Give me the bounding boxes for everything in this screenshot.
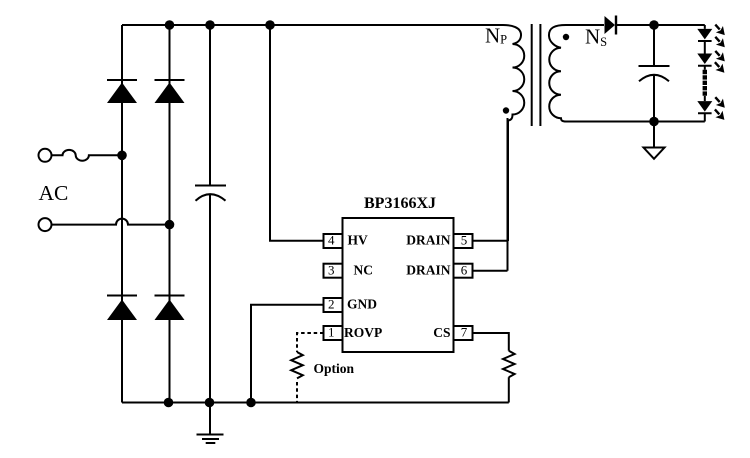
svg-text:AC: AC (39, 181, 69, 205)
svg-text:6: 6 (461, 263, 468, 278)
svg-text:ROVP: ROVP (344, 325, 382, 340)
svg-text:HV: HV (348, 233, 369, 248)
svg-text:NC: NC (354, 263, 374, 278)
svg-text:DRAIN: DRAIN (406, 263, 451, 278)
svg-text:7: 7 (461, 325, 468, 340)
svg-text:Option: Option (314, 361, 355, 376)
svg-text:CS: CS (433, 325, 450, 340)
svg-text:5: 5 (461, 233, 468, 248)
svg-text:3: 3 (328, 263, 335, 278)
svg-text:BP3166XJ: BP3166XJ (364, 195, 436, 212)
svg-text:NS: NS (585, 25, 607, 50)
svg-text:2: 2 (328, 296, 335, 311)
svg-text:1: 1 (328, 325, 335, 340)
svg-text:GND: GND (347, 296, 377, 311)
svg-text:DRAIN: DRAIN (406, 233, 451, 248)
svg-text:NP: NP (485, 24, 507, 48)
svg-text:4: 4 (328, 233, 335, 248)
